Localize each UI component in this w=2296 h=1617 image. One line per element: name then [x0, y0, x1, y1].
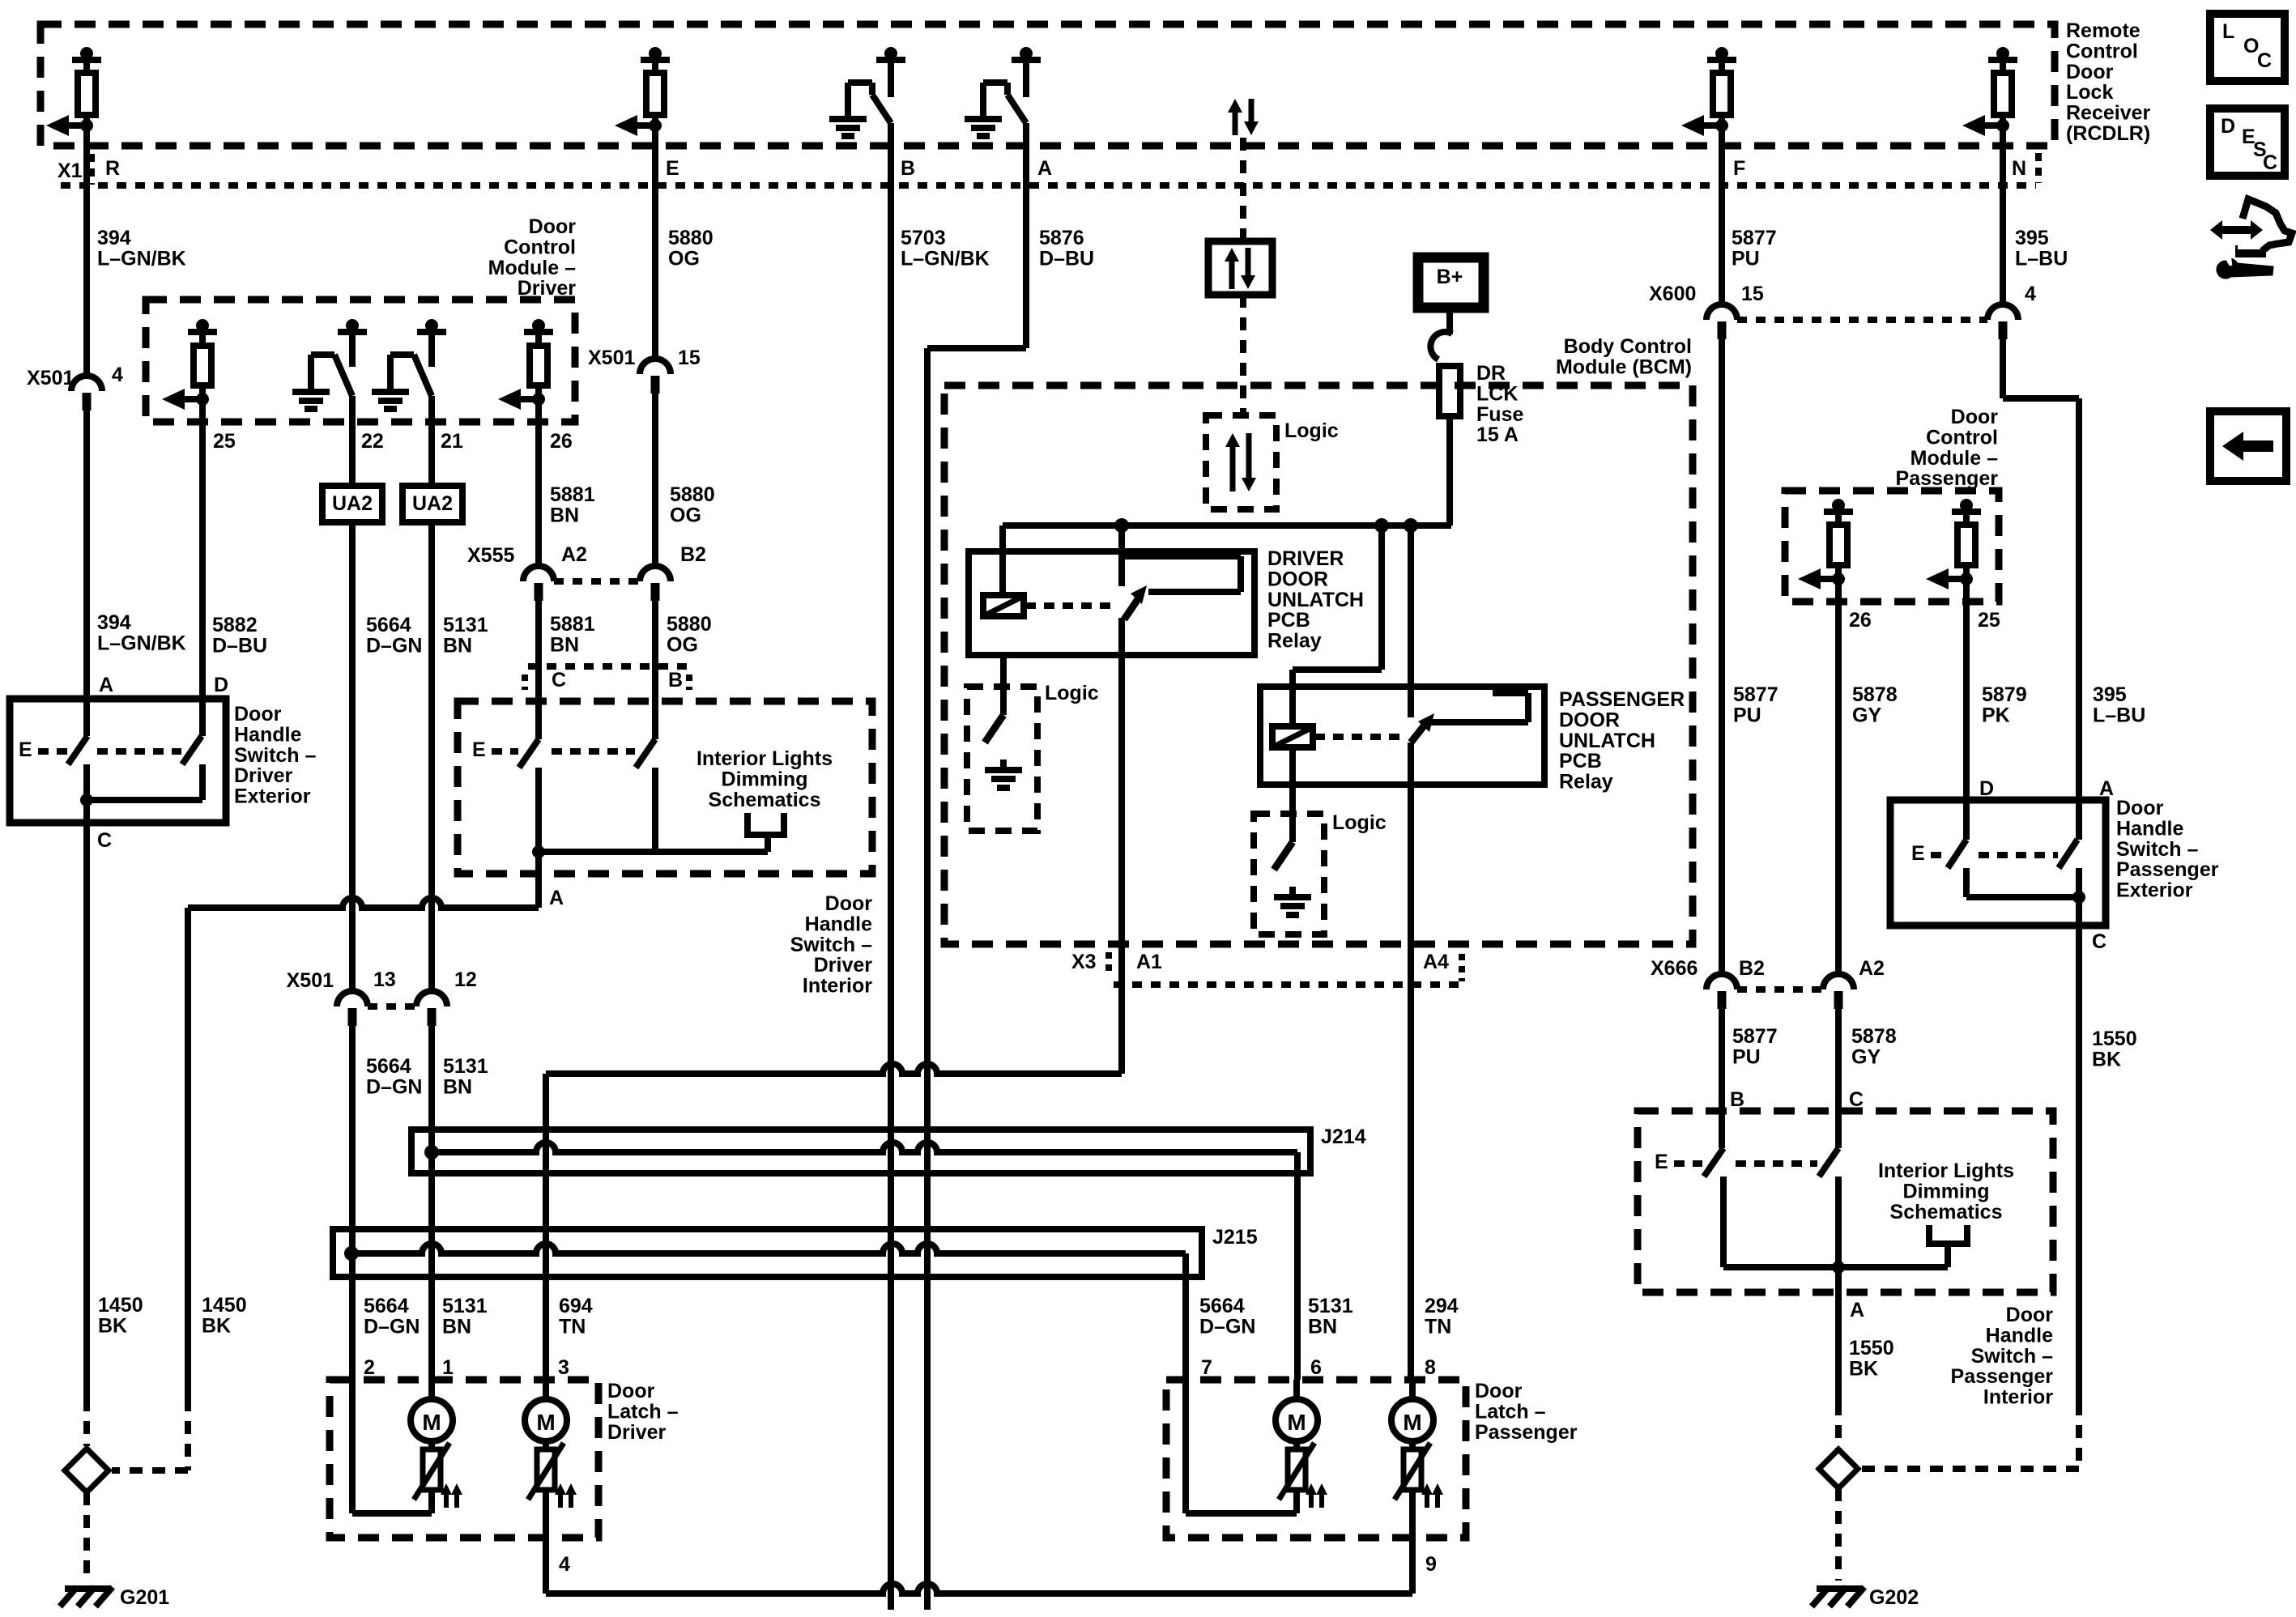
svg-text:5877: 5877 — [1732, 227, 1777, 249]
back arrow — [2222, 432, 2273, 461]
svg-text:(RCDLR): (RCDLR) — [2066, 122, 2150, 145]
X501 13-12 dotted — [368, 1003, 416, 1010]
wire A horizontal run — [188, 898, 539, 908]
svg-text:5703: 5703 — [901, 227, 946, 249]
svg-text:A: A — [1850, 1299, 1864, 1321]
svg-text:5877: 5877 — [1733, 683, 1778, 706]
antenna/resistor branch wire E — [641, 57, 670, 63]
wire C inside pass int — [1835, 1111, 1842, 1148]
svg-text:5881: 5881 — [550, 613, 595, 636]
J215 box — [333, 1229, 1202, 1277]
svg-text:Door: Door — [1951, 406, 1999, 428]
svg-text:M: M — [536, 1410, 555, 1435]
J214 internal wire — [432, 1143, 1297, 1152]
passenger relay common drop — [1408, 526, 1414, 717]
svg-text:OG: OG — [668, 247, 700, 270]
svg-text:L–GN/BK: L–GN/BK — [901, 247, 990, 270]
DHS drv int face dotted row — [528, 663, 689, 670]
svg-text:1: 1 — [442, 1356, 454, 1379]
latch pass pin9 wire — [1409, 1491, 1416, 1594]
svg-text:C: C — [97, 829, 112, 852]
latch pass wire pin8 to motor — [1409, 1380, 1416, 1399]
logic arrows in box — [1229, 259, 1235, 289]
svg-text:B2: B2 — [680, 543, 706, 566]
svg-text:Handle: Handle — [805, 913, 872, 935]
E dashed link pass int — [1674, 1160, 1702, 1167]
svg-text:A: A — [1037, 157, 1052, 180]
svg-text:N: N — [2012, 157, 2026, 180]
svg-text:PCB: PCB — [1267, 609, 1310, 632]
wire 5131 below X501 — [428, 1024, 435, 1380]
svg-text:BN: BN — [442, 1315, 471, 1338]
dimming bracket drv — [744, 813, 751, 835]
DCM driver dashed box — [146, 300, 575, 422]
svg-text:26: 26 — [1849, 609, 1872, 632]
antenna/resistor branch wire R — [72, 57, 101, 63]
svg-text:G201: G201 — [120, 1586, 169, 1609]
wire 394 below X501 — [83, 409, 90, 699]
svg-text:OG: OG — [667, 633, 698, 656]
svg-text:L–GN/BK: L–GN/BK — [97, 632, 186, 654]
svg-text:5880: 5880 — [668, 227, 714, 249]
passenger relay blade — [1411, 720, 1429, 743]
svg-text:Module (BCM): Module (BCM) — [1556, 355, 1692, 378]
driver logic blade — [985, 715, 1003, 743]
latch driver motor M1 bottom — [428, 1491, 435, 1513]
switch blade D drv ext — [182, 736, 202, 764]
svg-text:X555: X555 — [467, 544, 514, 567]
logic dashed wire upper — [1240, 138, 1246, 241]
DCM passenger dashed box — [1785, 491, 1999, 602]
svg-text:E: E — [19, 738, 32, 761]
driver logic ground — [985, 767, 1022, 773]
wire D through box — [199, 699, 206, 736]
svg-text:5664: 5664 — [1199, 1295, 1245, 1317]
wire below blade C — [535, 768, 542, 852]
X501 pin12 connector — [416, 991, 447, 1006]
svg-text:5880: 5880 — [670, 483, 715, 506]
switch blade A pass ext — [2059, 840, 2077, 868]
switch blade B pass int — [1704, 1148, 1723, 1177]
svg-text:GY: GY — [1851, 1045, 1881, 1068]
wire A through box — [83, 699, 90, 736]
E dashed link drv int — [492, 748, 518, 755]
passenger logic wire — [1289, 747, 1296, 842]
svg-text:D–BU: D–BU — [212, 634, 267, 657]
J214 box — [411, 1130, 1310, 1173]
wire 5881 pin26 down — [535, 399, 542, 567]
latch driver wire pin3 to motor — [543, 1380, 549, 1399]
wire UA2 pin21 down — [428, 396, 435, 992]
svg-text:Control: Control — [2066, 40, 2138, 62]
svg-text:1550: 1550 — [2092, 1028, 2137, 1050]
X600 pin 15 connector — [1706, 304, 1737, 320]
latch driver pin2 wire — [349, 1380, 356, 1513]
svg-text:Schematics: Schematics — [709, 789, 821, 811]
svg-text:5131: 5131 — [443, 1055, 488, 1078]
back arrow legend box — [2210, 411, 2286, 481]
svg-text:394: 394 — [97, 227, 131, 249]
X1 connector dotted line — [61, 182, 2036, 189]
J215 internal wire — [351, 1244, 1186, 1253]
svg-text:B: B — [901, 157, 915, 180]
svg-text:Handle: Handle — [2116, 817, 2183, 840]
svg-text:PU: PU — [1733, 704, 1761, 726]
dashed to G202 — [1835, 1488, 1842, 1581]
svg-text:L–BU: L–BU — [2015, 247, 2068, 270]
svg-text:C: C — [2257, 49, 2272, 72]
wire 5664 below X501 — [349, 1024, 356, 1380]
svg-text:DOOR: DOOR — [1267, 568, 1328, 590]
switch blade B drv int — [636, 739, 655, 768]
svg-text:Exterior: Exterior — [234, 785, 311, 808]
svg-text:Lock: Lock — [2066, 81, 2113, 104]
logic dashed wire mid — [1240, 295, 1246, 415]
svg-text:5880: 5880 — [667, 613, 712, 636]
svg-text:15 A: 15 A — [1476, 423, 1519, 446]
splice diamond left — [65, 1449, 109, 1492]
UA2 tag pin22 — [322, 486, 382, 522]
X600 dotted row — [1737, 317, 1987, 323]
svg-text:DRIVER: DRIVER — [1267, 547, 1344, 570]
passenger relay contact hook — [1429, 719, 1528, 726]
passenger logic gnd stub — [1289, 887, 1296, 897]
face stub right — [686, 674, 692, 690]
wire A through box pass — [2076, 800, 2082, 840]
driver relay output wire — [1118, 618, 1125, 1074]
wire E/5880 down to X501-15 — [652, 126, 658, 360]
svg-text:D–GN: D–GN — [366, 1075, 422, 1098]
X1 separator stub right — [2035, 153, 2042, 183]
DCM driver resistor pin26 — [524, 329, 553, 335]
svg-text:E: E — [472, 738, 486, 761]
svg-text:5131: 5131 — [1308, 1295, 1353, 1317]
latch driver wire pin1 to motor — [428, 1380, 435, 1399]
svg-text:PASSENGER: PASSENGER — [1559, 688, 1685, 711]
wire 5878 pin26 down — [1835, 579, 1842, 976]
svg-text:1550: 1550 — [1849, 1337, 1894, 1360]
wire 5879 pin25 down — [1963, 579, 1970, 800]
svg-text:PK: PK — [1982, 704, 2010, 726]
BCM logic dashed box — [1206, 415, 1276, 509]
svg-text:X666: X666 — [1651, 957, 1698, 980]
svg-text:L–GN/BK: L–GN/BK — [97, 247, 186, 270]
svg-text:L: L — [2222, 20, 2234, 43]
X600 pin 4 connector — [1987, 304, 2018, 320]
X3 dotted row — [1114, 981, 1462, 988]
dimming bracket pass — [1926, 1225, 1932, 1244]
wire N/395 to X600-4 — [2000, 126, 2006, 305]
X555 pin B2 connector — [640, 566, 671, 581]
svg-text:A2: A2 — [561, 543, 587, 566]
svg-text:Fuse: Fuse — [1476, 403, 1523, 426]
svg-text:GY: GY — [1852, 704, 1881, 726]
svg-text:4: 4 — [112, 364, 123, 386]
svg-text:C: C — [2263, 151, 2277, 174]
wire 1450 below C — [83, 823, 90, 1398]
svg-text:Interior Lights: Interior Lights — [696, 747, 833, 770]
wire A/5876 upper — [1023, 123, 1029, 348]
svg-text:2: 2 — [364, 1356, 375, 1379]
svg-text:Logic: Logic — [1045, 682, 1099, 704]
svg-text:Driver: Driver — [234, 764, 293, 787]
DHS driver interior dashed box — [458, 701, 872, 874]
svg-text:5877: 5877 — [1732, 1025, 1778, 1048]
latch pass motor M1 — [1276, 1399, 1318, 1441]
svg-text:Switch –: Switch – — [234, 744, 317, 767]
svg-text:9: 9 — [1425, 1553, 1437, 1576]
wire B inside pass int — [1719, 1111, 1725, 1148]
svg-text:B+: B+ — [1437, 266, 1463, 288]
X666 pin A2 connector — [1823, 974, 1854, 989]
X501 pin13 connector — [337, 991, 368, 1006]
svg-text:E: E — [1911, 842, 1925, 865]
svg-text:5878: 5878 — [1852, 683, 1898, 706]
svg-text:G202: G202 — [1869, 1586, 1919, 1609]
wire 5878 below X666 — [1835, 1007, 1842, 1111]
svg-text:UNLATCH: UNLATCH — [1267, 589, 1364, 611]
junction dot drv int — [532, 845, 545, 858]
svg-text:Switch –: Switch – — [790, 934, 873, 956]
switch-to-ground branch wire B — [876, 57, 905, 63]
svg-text:25: 25 — [1978, 609, 2000, 632]
svg-text:X3: X3 — [1071, 951, 1097, 973]
switch blade C pass int — [1819, 1148, 1838, 1177]
svg-text:5131: 5131 — [442, 1295, 488, 1317]
internal link pass ext — [1966, 894, 2079, 900]
J214 junction dot — [424, 1145, 439, 1160]
switch-to-ground branch wire A — [1012, 57, 1041, 63]
wire 5876 jog — [927, 345, 1026, 351]
svg-text:E: E — [666, 157, 679, 180]
latch driver motor M1 — [411, 1399, 453, 1441]
svg-text:BK: BK — [2092, 1048, 2121, 1070]
wire UA2 pin22 down — [349, 396, 356, 992]
X555 pin A2 connector — [523, 566, 554, 581]
svg-text:Passenger: Passenger — [1951, 1365, 2054, 1388]
svg-text:5664: 5664 — [364, 1295, 409, 1317]
bottom return wire — [546, 1584, 1412, 1594]
svg-text:BN: BN — [550, 633, 579, 656]
svg-text:1450: 1450 — [98, 1294, 143, 1317]
internal wire pass int — [1723, 1264, 1948, 1270]
svg-text:3: 3 — [558, 1356, 569, 1379]
svg-text:PU: PU — [1732, 1045, 1761, 1068]
svg-text:Relay: Relay — [1267, 630, 1322, 653]
wire 694 TN drop — [543, 1074, 549, 1380]
wire 1550 dashed to splice — [1835, 1402, 1842, 1449]
svg-text:D: D — [214, 674, 228, 696]
DCM driver switch pin21 — [417, 329, 446, 335]
passenger relay blade arrowhead — [1418, 713, 1434, 732]
svg-text:DOOR: DOOR — [1559, 709, 1620, 731]
svg-text:Door: Door — [825, 892, 873, 915]
DESC legend box — [2210, 109, 2285, 176]
wire 5876 lower drop — [924, 348, 931, 1610]
DCM driver switch pin22 — [338, 329, 367, 335]
wire 1550 below C — [2076, 926, 2082, 1402]
svg-text:5879: 5879 — [1982, 683, 2027, 706]
RCDLR module dashed box — [40, 24, 2055, 146]
driver relay fixed contact drop — [1118, 526, 1125, 586]
wire 5877 below X666 — [1719, 1007, 1725, 1111]
wire A1/694 jog — [546, 1064, 1122, 1074]
svg-text:Latch –: Latch – — [1475, 1400, 1546, 1423]
X501 pin 4 connector — [71, 376, 102, 391]
svg-text:A4: A4 — [1423, 951, 1449, 973]
driver logic gnd stub — [1000, 760, 1007, 770]
internal link drv ext — [87, 797, 202, 803]
svg-text:X501: X501 — [588, 347, 635, 369]
svg-text:Logic: Logic — [1284, 419, 1339, 442]
wire 395 down to DHS passenger ext — [2076, 398, 2082, 800]
svg-text:A: A — [549, 887, 564, 909]
junction dot pass int — [1832, 1261, 1845, 1274]
svg-text:8: 8 — [1425, 1356, 1436, 1379]
svg-text:395: 395 — [2093, 683, 2127, 706]
internal wire to bracket — [539, 849, 768, 855]
latch pass motor M2 — [1391, 1399, 1433, 1441]
latch driver motor M2 — [525, 1399, 567, 1441]
svg-text:X501: X501 — [27, 367, 74, 389]
svg-text:Schematics: Schematics — [1890, 1201, 2003, 1223]
svg-text:1450: 1450 — [202, 1294, 247, 1317]
driver relay box — [969, 551, 1254, 655]
svg-text:J215: J215 — [1212, 1226, 1258, 1249]
wire 395 jog right — [2003, 395, 2079, 402]
svg-text:5876: 5876 — [1039, 227, 1084, 249]
svg-text:4: 4 — [559, 1553, 570, 1576]
logic double-arrow at RCDLR — [1233, 110, 1238, 135]
svg-text:Door: Door — [2116, 797, 2164, 819]
wire 5882 pin25 down — [199, 399, 206, 699]
svg-text:395: 395 — [2015, 227, 2049, 249]
BCM feed bus — [1003, 522, 1451, 529]
svg-text:15: 15 — [1741, 283, 1764, 305]
door latch driver dashed box — [330, 1380, 598, 1538]
svg-text:UA2: UA2 — [332, 492, 373, 515]
svg-text:12: 12 — [454, 968, 477, 991]
svg-text:B: B — [668, 669, 683, 691]
passenger relay output wire — [1408, 743, 1414, 1380]
svg-text:5881: 5881 — [550, 483, 595, 506]
face stub left — [522, 674, 528, 690]
svg-text:A: A — [99, 674, 113, 696]
switch blade D pass ext — [1948, 840, 1966, 868]
svg-text:X1: X1 — [58, 160, 83, 182]
svg-text:15: 15 — [678, 347, 701, 369]
svg-text:Dimming: Dimming — [722, 768, 808, 790]
E dashed link drv ext — [38, 748, 67, 755]
wire 1450 dashed to splice — [83, 1398, 90, 1446]
logic arrows solid box — [1208, 241, 1272, 295]
svg-text:7: 7 — [1201, 1356, 1212, 1379]
svg-text:Interior: Interior — [1983, 1386, 2053, 1409]
wire 5877 PU down right of BCM — [1719, 338, 1725, 976]
wire 395 below X600 — [2000, 338, 2006, 398]
X1 separator stub left — [88, 154, 95, 185]
svg-text:Driver: Driver — [607, 1421, 667, 1444]
BCM logic arrows — [1230, 445, 1236, 491]
svg-text:Body Control: Body Control — [1564, 335, 1692, 358]
svg-text:394: 394 — [97, 611, 131, 634]
svg-text:PCB: PCB — [1559, 750, 1602, 772]
svg-text:Dimming: Dimming — [1903, 1180, 1990, 1202]
switch blade C drv int — [519, 739, 539, 768]
svg-text:Driver: Driver — [814, 954, 873, 977]
svg-text:C: C — [552, 669, 566, 691]
switch blade A drv ext — [68, 736, 87, 764]
svg-text:6: 6 — [1310, 1356, 1322, 1379]
X666 pin B2 connector — [1706, 974, 1737, 989]
svg-text:M: M — [1403, 1410, 1421, 1435]
svg-text:A1: A1 — [1136, 951, 1162, 973]
svg-text:L–BU: L–BU — [2093, 704, 2145, 726]
wire fuse to bus — [1446, 416, 1453, 526]
wire 5881 below X555 — [535, 599, 542, 739]
svg-text:694: 694 — [559, 1295, 593, 1317]
passenger relay box — [1260, 687, 1544, 785]
svg-text:X600: X600 — [1649, 283, 1696, 305]
svg-text:Module –: Module – — [488, 257, 576, 279]
DCM pass resistor pin25 — [1952, 509, 1981, 515]
svg-text:LCK: LCK — [1476, 382, 1518, 405]
svg-text:BN: BN — [443, 634, 472, 657]
svg-text:13: 13 — [373, 968, 396, 991]
svg-text:Relay: Relay — [1559, 771, 1613, 794]
driver relay coil — [983, 595, 1024, 616]
svg-text:B2: B2 — [1739, 957, 1765, 980]
passenger relay coil-blade dashed link — [1314, 734, 1401, 740]
wire 5880 below X555 — [652, 599, 658, 739]
antenna/resistor branch wire N — [1988, 57, 2017, 63]
BCM dashed box — [944, 385, 1693, 944]
svg-text:26: 26 — [550, 430, 573, 453]
svg-text:D: D — [2221, 115, 2235, 138]
wire B/5703 full drop — [888, 123, 894, 1610]
wire F/5877 down to X600 — [1719, 126, 1725, 305]
svg-text:D–GN: D–GN — [364, 1315, 420, 1338]
passenger logic blade — [1274, 842, 1293, 870]
svg-text:Door: Door — [234, 703, 282, 726]
svg-text:Latch –: Latch – — [607, 1400, 679, 1423]
passenger logic ground — [1274, 894, 1311, 900]
svg-text:BK: BK — [98, 1314, 127, 1337]
svg-text:M: M — [422, 1410, 441, 1435]
driver logic dashed box — [967, 687, 1037, 831]
X666 dotted row — [1737, 986, 1823, 993]
svg-text:BN: BN — [550, 504, 579, 526]
svg-text:Passenger: Passenger — [2116, 858, 2219, 881]
svg-text:Control: Control — [1926, 426, 1998, 449]
passenger logic dashed box — [1254, 814, 1324, 934]
DR LCK fuse body — [1439, 366, 1460, 416]
J215 junction dot — [344, 1246, 359, 1261]
fuse hook — [1430, 332, 1452, 360]
antenna/resistor branch wire F — [1707, 57, 1736, 63]
bus junction dots — [1114, 518, 1129, 533]
DCM pass resistor pin26 — [1824, 509, 1853, 515]
svg-text:BN: BN — [443, 1075, 472, 1098]
diagnostic icon bar — [2236, 246, 2265, 257]
junction dot drv ext — [80, 794, 93, 806]
wire 5131 pin6 drop — [1294, 1152, 1301, 1380]
DHS pass interior dashed box — [1638, 1111, 2053, 1292]
svg-text:21: 21 — [441, 430, 463, 453]
svg-text:4: 4 — [2025, 283, 2036, 305]
svg-text:E: E — [1655, 1151, 1668, 1173]
wire 1450 second drop — [185, 908, 191, 1398]
